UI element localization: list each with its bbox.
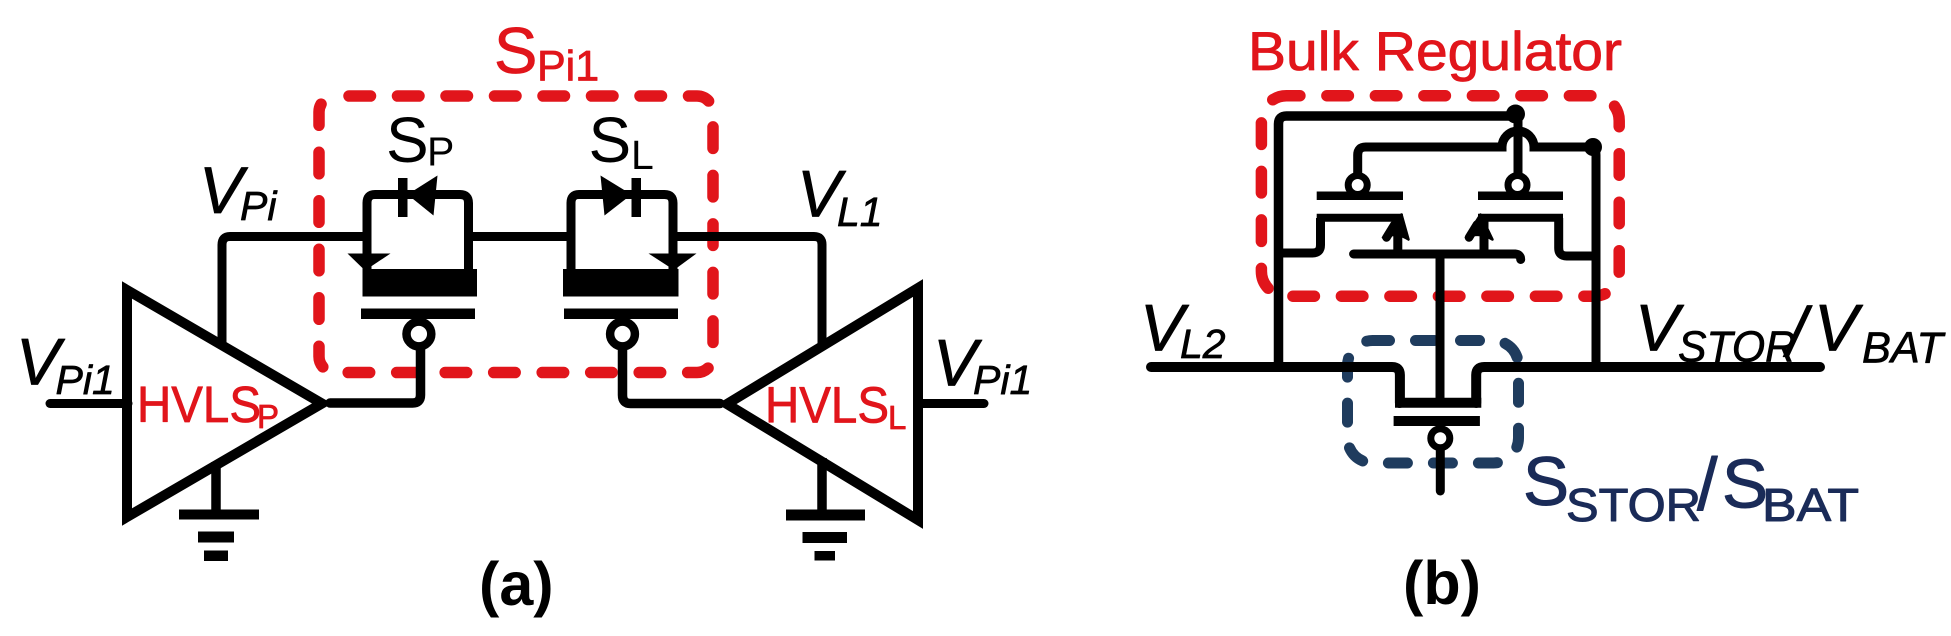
gate wire to HVLS_P output xyxy=(330,349,421,403)
svg-text:HVLS: HVLS xyxy=(765,377,889,434)
wire V_Pi riser from HVLS_P top to rail xyxy=(222,237,367,347)
wire rail right with V_L1 riser xyxy=(673,237,822,347)
wire main rail left (V_L2) xyxy=(1151,367,1400,403)
svg-text:Pi1: Pi1 xyxy=(973,357,1032,403)
gate bar xyxy=(1394,416,1480,426)
svg-text:S: S xyxy=(494,14,537,87)
drain stub to V_STOR vertical xyxy=(1559,218,1596,256)
gate bubble xyxy=(1348,176,1367,195)
svg-text:S: S xyxy=(386,104,429,176)
wire main rail right (V_STOR/V_BAT) xyxy=(1476,367,1820,403)
svg-text:L2: L2 xyxy=(1180,321,1226,367)
dashed box Bulk Regulator xyxy=(1261,96,1619,297)
transistor M2 (right PMOS of bulk regulator) xyxy=(1466,176,1596,257)
svg-text:/: / xyxy=(1697,443,1718,526)
gate bubble xyxy=(1431,429,1450,448)
body diode cathode bar xyxy=(632,178,642,217)
channel bar xyxy=(563,269,679,297)
svg-text:STOR: STOR xyxy=(1566,479,1701,531)
svg-text:L: L xyxy=(888,399,906,436)
channel xyxy=(1317,214,1403,222)
svg-text:S: S xyxy=(1523,443,1569,520)
gate bar xyxy=(361,309,475,320)
channel xyxy=(1478,214,1563,222)
gate bubble xyxy=(1508,176,1527,195)
gate wire to HVLS_L output xyxy=(623,349,721,404)
op-amp buffer HVLS_P xyxy=(127,290,322,517)
wire cross-coupling (left gate to V_STOR vertical) with hop xyxy=(1358,131,1596,367)
wire right PMOS gate stem xyxy=(1514,114,1523,173)
loop wires xyxy=(571,195,673,277)
transistor S_L xyxy=(563,176,720,404)
source stub to V_L2 xyxy=(1275,218,1321,253)
svg-text:S: S xyxy=(589,104,632,176)
svg-text:HVLS: HVLS xyxy=(137,376,261,433)
bulk arrow xyxy=(1383,215,1409,240)
transistor S_P xyxy=(330,176,477,404)
svg-text:BAT: BAT xyxy=(1762,479,1859,531)
wire input left (V_Pi1 to HVLS_P) xyxy=(50,399,128,408)
svg-text:(b): (b) xyxy=(1403,549,1481,617)
label HVLS_L xyxy=(765,377,906,437)
body diode triangle xyxy=(408,176,438,216)
gate stem xyxy=(1436,450,1445,491)
gate bar xyxy=(1478,191,1563,200)
loop wires xyxy=(367,195,469,277)
svg-text:Bulk Regulator: Bulk Regulator xyxy=(1248,20,1622,82)
label V_L1 xyxy=(797,157,883,236)
svg-text:Pi1: Pi1 xyxy=(56,357,115,403)
label V_L2 xyxy=(1140,291,1226,368)
transistor M1 (left PMOS of bulk regulator) xyxy=(1275,176,1521,260)
wire left vertical with top rail (V_L2 branch to right PMOS gate) xyxy=(1279,116,1514,367)
body diode triangle xyxy=(601,176,632,216)
channel plate xyxy=(1395,398,1481,408)
label V_Pi1 left xyxy=(16,325,115,404)
svg-text:Pi1: Pi1 xyxy=(537,43,599,91)
channel bar xyxy=(363,269,478,297)
source arrow xyxy=(348,254,391,271)
gate bar xyxy=(564,309,678,320)
label V_STOR/V_BAT xyxy=(1635,291,1946,373)
body diode cathode bar xyxy=(398,178,408,217)
gate bar xyxy=(1317,191,1403,200)
source stub to bulk node xyxy=(1480,218,1489,254)
junction dot top rail end xyxy=(1506,105,1525,124)
bulk arrow xyxy=(1466,215,1493,240)
dashed box S_STOR/S_BAT xyxy=(1348,341,1519,464)
svg-text:(a): (a) xyxy=(479,550,554,618)
svg-text:BAT: BAT xyxy=(1862,324,1946,373)
op-amp buffer HVLS_L xyxy=(727,288,918,520)
svg-text:P: P xyxy=(427,129,454,175)
ground right xyxy=(786,458,865,561)
wire rail between S_P and S_L xyxy=(469,232,572,241)
svg-text:V: V xyxy=(1814,291,1864,365)
svg-text:L: L xyxy=(631,132,654,178)
label V_Pi xyxy=(199,153,278,229)
wire output right (HVLS_L input from V_Pi1) xyxy=(923,399,984,408)
label S_Pi1 xyxy=(494,14,599,91)
gate bubble xyxy=(610,322,635,347)
label S_STOR/S_BAT xyxy=(1523,443,1859,531)
svg-text:P: P xyxy=(257,398,279,435)
label S_P xyxy=(386,104,454,176)
junction dot at corner xyxy=(1584,138,1602,156)
gate bubble xyxy=(407,322,432,347)
transistor S_STOR/S_BAT (series switch) xyxy=(1394,403,1482,491)
bulk node wire xyxy=(1354,254,1521,260)
svg-text:L1: L1 xyxy=(837,189,883,235)
wire bulk node to S_STOR bulk xyxy=(1436,255,1445,404)
label HVLS_P xyxy=(137,376,279,435)
source arrow xyxy=(649,254,697,271)
dashed box S_Pi1 xyxy=(319,96,713,373)
ground left xyxy=(179,462,259,561)
label S_L xyxy=(589,104,654,178)
svg-text:Pi: Pi xyxy=(240,183,278,229)
drain stub xyxy=(1393,218,1402,253)
label V_Pi1 right xyxy=(933,326,1032,404)
